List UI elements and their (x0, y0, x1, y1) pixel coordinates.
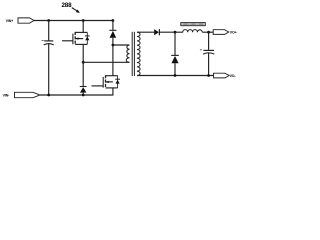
output port VO+ (213, 30, 236, 35)
diode D1 clamp (109, 21, 116, 76)
node top rail / C1 (47, 19, 50, 22)
node top rail / Q1 drain (82, 19, 85, 22)
transistor Q2 MOSFET (92, 75, 121, 95)
transformer T1 primary winding (126, 45, 129, 62)
diode D4 freewheeling (171, 32, 179, 75)
node D4 cathode junction (174, 31, 177, 34)
wire bottom rail (40, 94, 113, 96)
wire top rail (34, 20, 113, 22)
node Q1 source (82, 61, 85, 64)
capacitor C1 input (42, 21, 54, 96)
transistor Q1 MOSFET (62, 21, 90, 63)
box above inductor (181, 23, 206, 26)
node top rail / D1 cathode (112, 19, 115, 22)
input port VIN+ (6, 18, 34, 23)
svg-text:288: 288 (62, 2, 73, 9)
wire primary bottom lead (83, 61, 129, 63)
output port VO- (214, 73, 237, 78)
wire primary top lead (113, 44, 129, 46)
svg-text:VO-: VO- (230, 74, 237, 78)
wire secondary bottom rail (137, 75, 214, 77)
wire L1 to output (202, 31, 213, 33)
svg-text:VO+: VO+ (230, 31, 237, 35)
transformer T1 core (131, 32, 133, 76)
svg-text:VIN-: VIN- (3, 94, 11, 98)
node output / C2 (207, 31, 210, 34)
transformer T1 secondary winding (137, 32, 140, 75)
capacitor C2 output (200, 32, 214, 75)
node bottom rail / D4 anode (174, 74, 177, 77)
diode D2 clamp (80, 62, 87, 95)
svg-text:VIN+: VIN+ (6, 19, 14, 23)
inductor L1 (183, 30, 203, 33)
wire secondary top lead (137, 31, 154, 33)
diode D3 rectifier (154, 29, 183, 35)
node bottom rail / C2 (207, 74, 210, 77)
node primary top / D1 anode (112, 44, 115, 47)
label 288 (62, 2, 80, 13)
node bottom rail / D2 anode (82, 94, 85, 97)
node bottom rail / C1 (47, 94, 50, 97)
input port VIN- (3, 92, 40, 97)
